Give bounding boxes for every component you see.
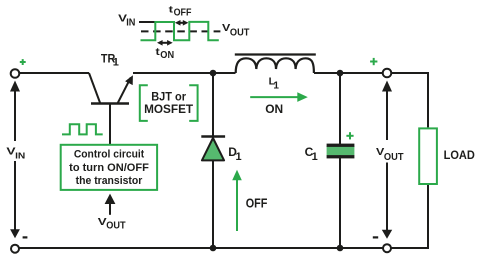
svg-text:the transistor: the transistor	[76, 175, 143, 187]
svg-text:OFF: OFF	[174, 8, 192, 19]
svg-text:IN: IN	[126, 17, 135, 28]
svg-text:to turn ON/OFF: to turn ON/OFF	[69, 162, 149, 174]
svg-text:t: t	[169, 4, 173, 14]
svg-text:IN: IN	[15, 151, 25, 161]
svg-text:OFF: OFF	[246, 195, 268, 210]
svg-text:MOSFET: MOSFET	[144, 102, 194, 116]
svg-text:ON: ON	[160, 50, 174, 61]
svg-text:OUT: OUT	[230, 27, 250, 38]
svg-text:OUT: OUT	[384, 152, 404, 163]
svg-text:LOAD: LOAD	[444, 150, 475, 162]
svg-text:Control circuit: Control circuit	[74, 149, 145, 161]
svg-text:ON: ON	[265, 102, 283, 116]
svg-text:1: 1	[236, 151, 242, 163]
svg-text:1: 1	[273, 80, 279, 91]
svg-text:1: 1	[113, 57, 119, 69]
svg-text:1: 1	[312, 151, 318, 163]
svg-text:OUT: OUT	[106, 220, 125, 231]
